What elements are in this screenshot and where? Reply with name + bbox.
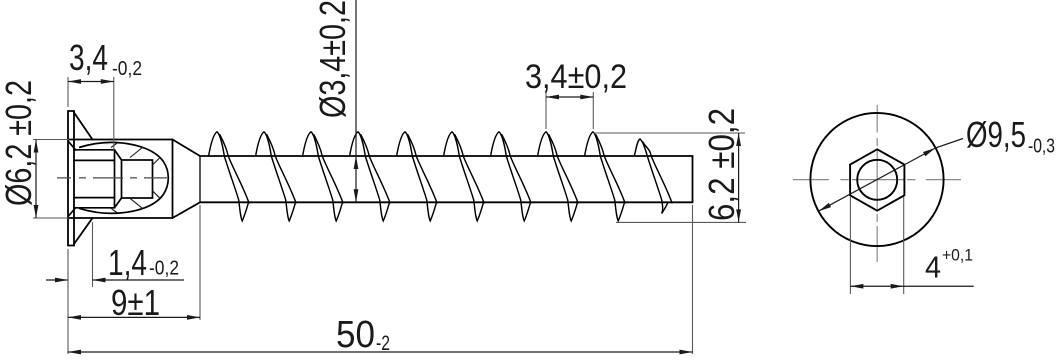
hatch line lower 1 — [111, 208, 118, 213]
socket inner flat bottom — [74, 197, 115, 199]
svg-text:3,4: 3,4 — [69, 37, 108, 78]
arrow left of dim 4 — [850, 284, 863, 289]
hatch line upper 3 — [153, 158, 161, 166]
entry chamfer top — [69, 142, 76, 150]
socket outer flat top — [74, 149, 115, 151]
hatch line upper 2 — [130, 147, 143, 158]
thread turn 5 back edge — [408, 135, 437, 203]
socket cone bottom — [115, 198, 122, 208]
cone/core junction — [199, 156, 201, 202]
arrow up of dim diam 6,2 — [34, 140, 39, 153]
flange cone top — [74, 113, 93, 140]
hatch line lower 3 — [153, 191, 161, 199]
svg-text:Ø3,4±0,2: Ø3,4±0,2 — [312, 0, 353, 118]
arrow down of dim diam 3,4 — [354, 189, 359, 202]
svg-text:-0,3: -0,3 — [1028, 136, 1055, 158]
arrow left of dim 50 — [68, 350, 81, 355]
thread turn 8 back edge — [549, 135, 578, 203]
thread turn 9 crest — [585, 132, 625, 221]
core right end — [692, 156, 694, 202]
dim 9 +-1 — [68, 205, 200, 354]
thread turn 3 back edge — [314, 135, 343, 203]
dim 4 hex — [850, 197, 903, 294]
svg-text:-0,2: -0,2 — [149, 258, 179, 280]
svg-text:Ø9,5: Ø9,5 — [966, 114, 1026, 155]
arrow left of dim 9 — [68, 315, 81, 320]
arrow right outside of dim 1,4 — [93, 278, 106, 283]
arrow left outside of dim 1,4 — [55, 278, 68, 283]
flange back face — [73, 111, 75, 246]
svg-text:-0,2: -0,2 — [112, 58, 142, 80]
arrow up of thread od dim — [736, 133, 741, 146]
horizontal centerline end view — [793, 179, 961, 181]
hatching — [111, 143, 160, 213]
svg-text:4: 4 — [925, 250, 941, 285]
svg-text:+0,1: +0,1 — [942, 246, 973, 265]
arrow left of pitch dim — [546, 95, 559, 100]
arrow down of thread od dim — [736, 209, 741, 222]
thread turn 7 crest — [491, 132, 531, 221]
thread turn 10 back edge — [643, 142, 672, 203]
svg-text:3,4±0,2: 3,4±0,2 — [525, 58, 627, 96]
neck cone bottom — [173, 202, 201, 218]
thread turn 2 back edge — [267, 135, 296, 203]
arrow upper-right on circle — [923, 146, 937, 156]
thread turn 8 crest — [538, 132, 578, 221]
thread turn 1 crest — [209, 132, 249, 221]
arrow lower-left on circle — [817, 203, 831, 213]
thread turn 9 back edge — [596, 135, 625, 203]
thread turn 1 back edge — [220, 135, 249, 203]
svg-text:9±1: 9±1 — [111, 282, 160, 323]
thread turn 4 back edge — [361, 135, 390, 203]
neck cone top — [173, 140, 201, 157]
svg-text:-2: -2 — [376, 332, 390, 355]
head top line — [68, 139, 173, 141]
svg-text:1,4: 1,4 — [108, 242, 147, 283]
vertical centerline end view — [876, 105, 878, 262]
dim 6,2 thread od — [594, 133, 747, 222]
hatch line upper 1 — [111, 143, 118, 148]
arrow right of dim 3,4 — [101, 79, 114, 84]
big circle head — [810, 113, 943, 246]
thread turn 4 crest — [350, 132, 390, 221]
socket end face — [114, 150, 116, 208]
flange top cap — [68, 110, 74, 112]
flange bottom cap — [68, 245, 74, 247]
thread turn 2 crest — [256, 132, 296, 221]
centerline left view — [57, 177, 169, 179]
dim 3,4 pitch — [546, 92, 593, 129]
flange front face — [67, 111, 69, 246]
flange cone bottom — [74, 218, 93, 244]
inner circle — [857, 160, 897, 200]
arrow down of dim diam 6,2 — [34, 205, 39, 218]
head interior: hex socket seen from side — [69, 142, 153, 217]
hexagon socket — [850, 149, 904, 210]
dim 50 -2 — [692, 205, 694, 354]
entry chamfer bottom — [69, 208, 76, 216]
thread turn 6 crest — [444, 132, 484, 221]
dim diam 6,2 head — [33, 140, 69, 219]
socket bottom rectangle — [122, 160, 153, 198]
svg-text:50: 50 — [336, 314, 375, 356]
arrow right of pitch dim — [580, 95, 593, 100]
arrow right of dim 50 — [680, 350, 693, 355]
svg-text:6,2 ±0,2: 6,2 ±0,2 — [701, 108, 742, 221]
thread turn 7 back edge — [502, 135, 531, 203]
dim diam 3,4 core — [355, 0, 357, 202]
thread turn 3 crest — [303, 132, 343, 221]
arrow right of dim 4 — [891, 284, 904, 289]
svg-text:Ø6,2 ±0,2: Ø6,2 ±0,2 — [0, 80, 39, 206]
arrow left of dim 3,4 — [68, 79, 81, 84]
head right face — [172, 140, 174, 219]
dim diam 9,5 leader — [819, 139, 964, 212]
thread turn 10 crest — [634, 139, 668, 214]
arrow right of dim 9 — [187, 315, 200, 320]
arrow up of dim diam 3,4 — [354, 156, 359, 169]
socket inner flat top — [74, 159, 115, 161]
head bottom line — [68, 217, 173, 219]
thread turn 6 back edge — [455, 135, 484, 203]
thread turn 5 crest — [397, 132, 437, 221]
core top line — [200, 155, 693, 157]
head dome curve — [79, 142, 168, 213]
socket outer flat bottom — [74, 207, 115, 209]
extension line socket depth — [113, 77, 115, 150]
dim line 3,4 head depth — [68, 81, 114, 83]
core bottom line — [200, 201, 693, 203]
dim 1,4 flange — [92, 222, 94, 287]
socket cone top — [115, 150, 122, 160]
hatch line lower 2 — [130, 198, 143, 209]
extension line flange face up — [67, 77, 69, 107]
